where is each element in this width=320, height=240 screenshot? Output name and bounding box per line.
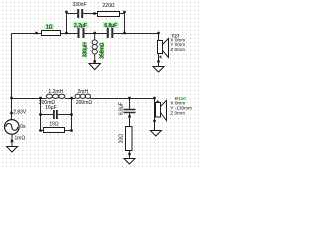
svg-text:0s: 0s [20,124,26,130]
svg-text:1,2mH: 1,2mH [48,89,63,95]
svg-text:6,8µF: 6,8µF [119,102,125,115]
svg-text:220Ω: 220Ω [102,3,114,9]
svg-text:358mΩ: 358mΩ [100,42,106,59]
svg-text:1Ω: 1Ω [46,24,53,30]
svg-text:330nF: 330nF [72,2,86,8]
svg-text:Z 0mm: Z 0mm [170,111,185,116]
svg-text:Z 0mm: Z 0mm [170,47,185,52]
svg-text:1mΩ: 1mΩ [15,136,26,142]
svg-text:15Ω: 15Ω [49,122,59,128]
svg-text:330µH: 330µH [83,42,89,57]
svg-text:2,2µF: 2,2µF [74,23,87,29]
svg-text:200mΩ: 200mΩ [76,100,93,106]
svg-text:6,8µF: 6,8µF [104,23,117,29]
svg-text:2mH: 2mH [78,89,89,95]
svg-text:16µF: 16µF [45,105,57,111]
svg-text:10Ω: 10Ω [119,134,125,144]
svg-text:2,83V: 2,83V [13,110,27,116]
